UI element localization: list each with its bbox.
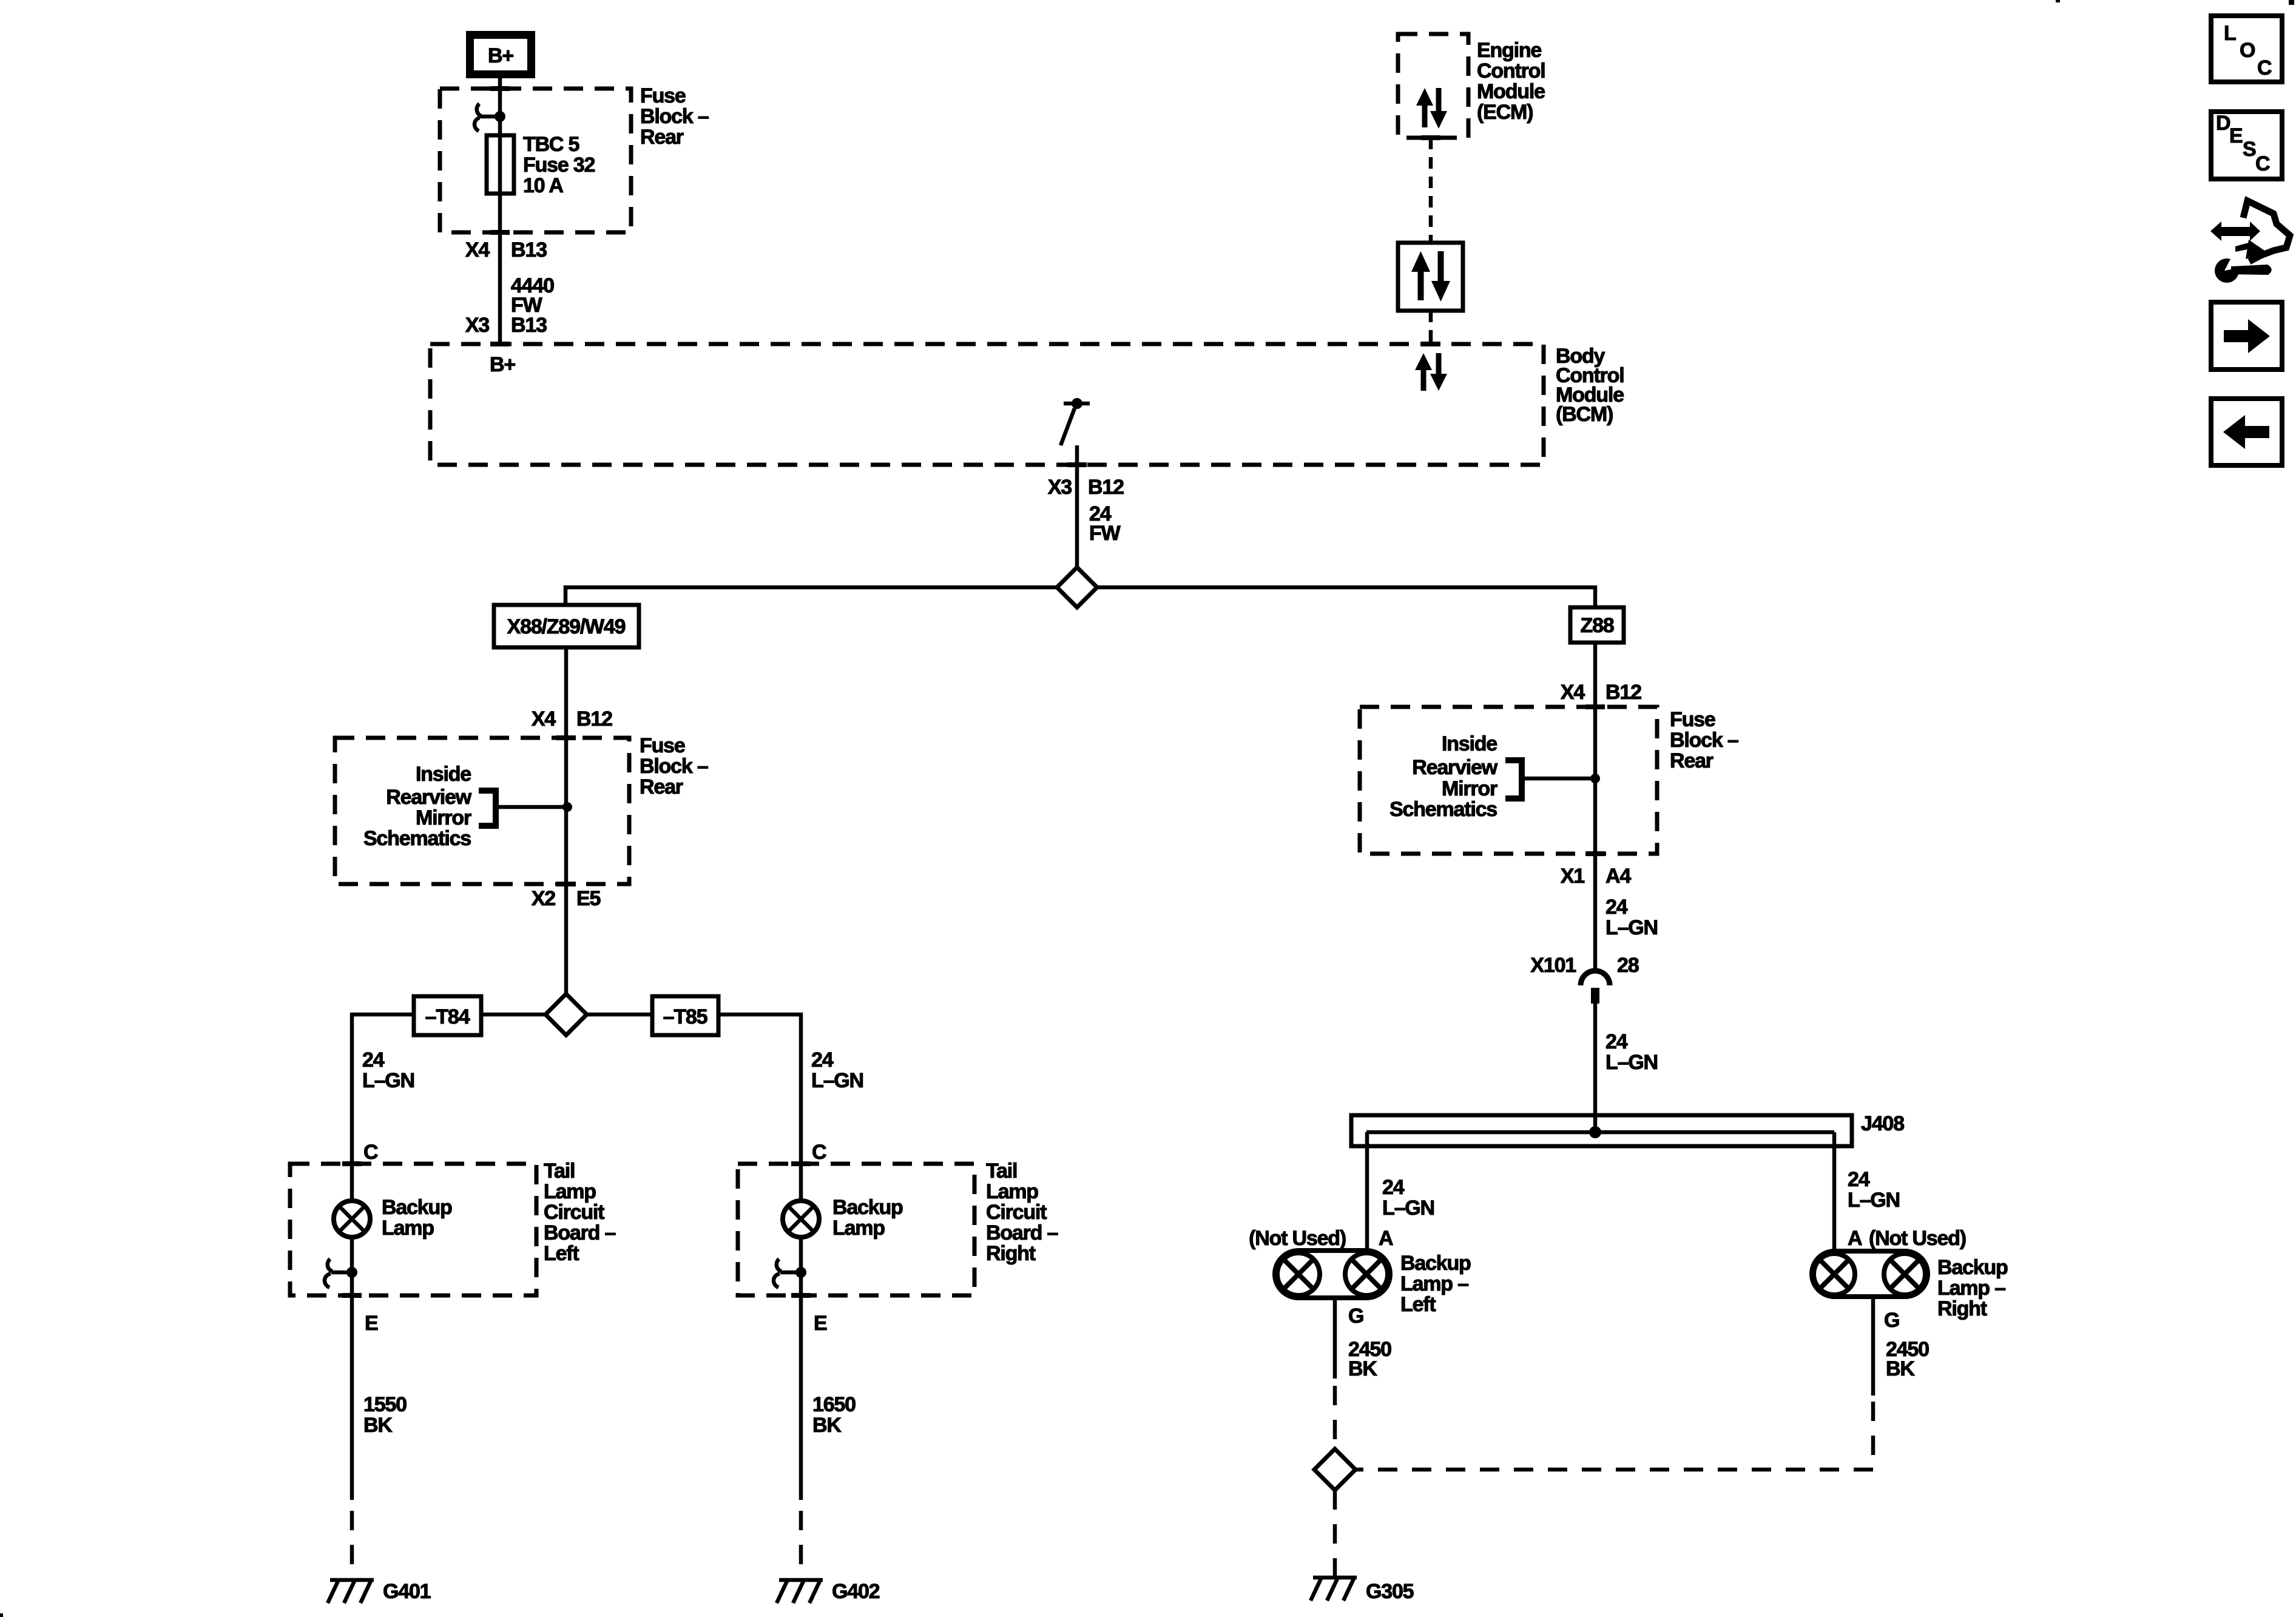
terminal clip (left board): [325, 1237, 357, 1295]
svg-text:(Not Used): (Not Used): [1869, 1227, 1966, 1250]
svg-text:E5: E5: [576, 887, 600, 910]
sidebar forward arrow button: [2211, 302, 2282, 370]
wire lamp to ground (left): [350, 1295, 354, 1500]
svg-text:O: O: [2240, 39, 2255, 62]
svg-text:S: S: [2243, 138, 2256, 161]
svg-text:Board –: Board –: [986, 1221, 1058, 1244]
svg-text:L–GN: L–GN: [811, 1069, 863, 1092]
svg-text:Left: Left: [1400, 1293, 1436, 1316]
svg-text:Block –: Block –: [640, 755, 708, 778]
dashed wire diamond to ground: [1333, 1490, 1337, 1578]
svg-text:Rear: Rear: [640, 126, 684, 149]
svg-text:24: 24: [1606, 896, 1628, 919]
svg-text:B13: B13: [511, 238, 547, 262]
backup lamp (right board): [783, 1164, 903, 1240]
BCM dashed box: [430, 344, 1544, 465]
svg-text:Mirror: Mirror: [416, 806, 471, 829]
wire Z88 down: [1593, 643, 1598, 971]
connector box Z88: [1570, 607, 1624, 643]
svg-text:Circuit: Circuit: [544, 1201, 604, 1224]
svg-text:B12: B12: [1088, 476, 1124, 499]
dashed ground bus to diamond: [1356, 1468, 1873, 1472]
svg-text:B+: B+: [488, 44, 513, 67]
svg-text:Inside: Inside: [1442, 732, 1497, 755]
B+ power terminal box: [470, 35, 532, 75]
svg-text:BK: BK: [363, 1414, 393, 1437]
svg-text:24: 24: [811, 1048, 834, 1072]
svg-text:Circuit: Circuit: [986, 1201, 1047, 1224]
svg-text:G: G: [1884, 1309, 1899, 1332]
svg-text:24: 24: [1848, 1168, 1870, 1191]
svg-text:B+: B+: [490, 353, 515, 376]
wire edge ticks: [490, 86, 510, 91]
svg-text:Fuse 32: Fuse 32: [523, 154, 595, 177]
svg-text:Inside: Inside: [416, 763, 471, 786]
svg-text:Backup: Backup: [832, 1196, 903, 1219]
svg-text:Fuse: Fuse: [640, 84, 686, 107]
svg-text:J408: J408: [1861, 1112, 1904, 1135]
svg-text:Rear: Rear: [640, 775, 683, 798]
svg-text:L–GN: L–GN: [1382, 1197, 1434, 1220]
backup lamp left assembly: [1275, 1251, 1471, 1316]
wire B+ to fuse block: [498, 78, 502, 344]
sidebar DESC button: [2211, 112, 2282, 179]
svg-text:L–GN: L–GN: [362, 1069, 414, 1092]
wire right lamp to ground net: [1871, 1297, 1876, 1396]
svg-text:X4: X4: [465, 238, 490, 262]
svg-text:X3: X3: [1048, 476, 1072, 499]
sidebar LOC button: [2211, 16, 2282, 82]
svg-text:10 A: 10 A: [523, 174, 563, 197]
svg-text:Rearview: Rearview: [386, 786, 471, 809]
svg-text:Fuse: Fuse: [1670, 708, 1715, 731]
svg-text:Backup: Backup: [1400, 1252, 1471, 1275]
wire J408 to right backup lamp: [1832, 1132, 1837, 1252]
svg-text:Z88: Z88: [1581, 614, 1614, 637]
svg-text:Lamp –: Lamp –: [1400, 1272, 1468, 1295]
svg-text:E: E: [814, 1312, 827, 1335]
splice diamond 3: [1314, 1449, 1356, 1490]
terminal clip (right board): [774, 1237, 806, 1295]
svg-text:BK: BK: [1886, 1357, 1915, 1380]
BCM serial data arrows: [1415, 353, 1447, 391]
svg-text:Right: Right: [986, 1242, 1036, 1265]
ground G401: [328, 1580, 431, 1603]
svg-text:24: 24: [1606, 1030, 1628, 1053]
svg-text:A: A: [1848, 1227, 1862, 1250]
svg-text:Lamp: Lamp: [986, 1180, 1038, 1203]
svg-text:Backup: Backup: [1937, 1256, 2008, 1279]
svg-text:Rearview: Rearview: [1412, 756, 1497, 779]
svg-text:(Not Used): (Not Used): [1249, 1227, 1346, 1250]
fuse block rear dashed box (right): [1360, 707, 1657, 854]
ground G402: [777, 1580, 880, 1603]
svg-text:L–GN: L–GN: [1606, 1051, 1658, 1074]
svg-text:(ECM): (ECM): [1477, 101, 1533, 124]
splice pack J408: [1351, 1112, 1904, 1146]
tail lamp circuit board left dashed box: [290, 1164, 536, 1295]
serial data gateway box: [1398, 243, 1463, 311]
svg-text:(BCM): (BCM): [1556, 403, 1613, 426]
svg-text:Engine: Engine: [1477, 39, 1541, 62]
page period mark: [0, 1613, 3, 1617]
wire X101 to J408: [1593, 1004, 1598, 1132]
connector -T85: [652, 996, 718, 1035]
svg-text:Lamp: Lamp: [832, 1217, 885, 1240]
svg-text:Lamp –: Lamp –: [1937, 1277, 2005, 1300]
svg-text:Rear: Rear: [1670, 749, 1714, 772]
svg-text:C: C: [2257, 56, 2272, 79]
svg-text:Board –: Board –: [544, 1221, 615, 1244]
svg-text:–T85: –T85: [663, 1005, 707, 1028]
svg-text:C: C: [363, 1141, 378, 1164]
ECM serial data arrows: [1416, 88, 1447, 129]
svg-text:L–GN: L–GN: [1606, 916, 1658, 939]
svg-text:C: C: [2255, 152, 2270, 175]
svg-text:G: G: [1348, 1305, 1363, 1328]
svg-text:D: D: [2216, 112, 2230, 135]
connector -T84: [414, 996, 481, 1035]
svg-text:B12: B12: [576, 707, 612, 731]
wire switch to splice diamond: [1075, 445, 1079, 569]
svg-text:A4: A4: [1606, 865, 1631, 888]
svg-text:L–GN: L–GN: [1848, 1189, 1900, 1212]
svg-text:Block –: Block –: [1670, 729, 1738, 752]
fuse TBC 5 Fuse 32 10 A: [487, 135, 514, 194]
svg-text:X101: X101: [1530, 954, 1576, 977]
svg-text:X2: X2: [532, 887, 555, 910]
inside rearview mirror schematics reference (left): [363, 763, 572, 850]
main horizontal wire: [566, 587, 1057, 605]
tail lamp circuit board right dashed box: [738, 1164, 974, 1295]
dashed serial data wire gateway to BCM: [1429, 311, 1433, 342]
top edge artifact 2: [2289, 0, 2294, 5]
switch inside BCM: [1061, 398, 1090, 445]
svg-text:BK: BK: [812, 1414, 842, 1437]
fuse block rear dashed box (top left): [440, 89, 631, 232]
ECM dashed box: [1398, 34, 1468, 138]
svg-text:–T84: –T84: [425, 1005, 470, 1028]
wire J408 to left backup lamp: [1365, 1132, 1369, 1252]
svg-text:Control: Control: [1477, 59, 1545, 83]
wire X88 box to diamond 2: [564, 647, 569, 994]
svg-text:BK: BK: [1348, 1357, 1377, 1380]
svg-text:G401: G401: [383, 1580, 431, 1603]
svg-text:1550: 1550: [363, 1393, 407, 1416]
svg-text:A: A: [1379, 1227, 1393, 1250]
svg-text:Fuse: Fuse: [640, 734, 685, 757]
splice diamond S1: [1057, 567, 1097, 607]
terminal clip in fuse block: [474, 104, 505, 131]
svg-text:Backup: Backup: [382, 1196, 452, 1219]
horizontal wire through T84/T85: [352, 1014, 545, 1166]
svg-text:24: 24: [362, 1048, 385, 1072]
svg-text:Lamp: Lamp: [382, 1217, 434, 1240]
sidebar hand/wrench icon: [2210, 201, 2290, 283]
svg-text:FW: FW: [1089, 522, 1121, 545]
ground G305: [1311, 1578, 1414, 1603]
svg-text:E: E: [2229, 124, 2243, 147]
svg-text:G402: G402: [832, 1580, 880, 1603]
svg-text:Schematics: Schematics: [363, 827, 471, 850]
svg-text:Left: Left: [544, 1242, 579, 1265]
svg-text:Lamp: Lamp: [544, 1180, 596, 1203]
splice diamond 2: [545, 994, 587, 1035]
svg-text:X88/Z89/W49: X88/Z89/W49: [507, 615, 626, 638]
svg-text:Mirror: Mirror: [1442, 777, 1497, 800]
backup lamp right assembly: [1812, 1251, 2008, 1320]
wire left lamp to ground: [1333, 1298, 1337, 1379]
svg-text:Tail: Tail: [544, 1160, 575, 1183]
top edge artifact 1: [2056, 0, 2060, 2]
svg-text:E: E: [365, 1312, 378, 1335]
connector box X88/Z89/W49: [494, 605, 639, 647]
svg-text:Block –: Block –: [640, 105, 709, 128]
svg-text:L: L: [2224, 22, 2236, 45]
svg-text:Module: Module: [1477, 80, 1545, 103]
svg-text:X4: X4: [532, 707, 556, 731]
svg-text:Schematics: Schematics: [1389, 798, 1497, 821]
svg-text:X3: X3: [465, 314, 489, 337]
svg-text:1650: 1650: [812, 1393, 856, 1416]
backup lamp (left board): [334, 1164, 452, 1240]
fuse block rear dashed box (left middle): [335, 738, 629, 884]
svg-text:Right: Right: [1937, 1297, 1987, 1320]
wire lamp to ground (right): [799, 1295, 803, 1500]
svg-text:C: C: [812, 1141, 826, 1164]
svg-text:24: 24: [1382, 1176, 1405, 1199]
sidebar back arrow button: [2211, 399, 2282, 465]
svg-text:28: 28: [1617, 954, 1639, 977]
svg-text:X4: X4: [1561, 681, 1585, 704]
inside rearview mirror schematics reference (right): [1389, 732, 1600, 821]
svg-text:B13: B13: [511, 314, 547, 337]
dashed serial data wire ECM to gateway: [1429, 138, 1433, 243]
svg-text:X1: X1: [1561, 865, 1584, 888]
svg-text:B12: B12: [1606, 681, 1641, 704]
svg-text:TBC 5: TBC 5: [523, 133, 579, 156]
svg-text:G305: G305: [1366, 1580, 1414, 1603]
svg-text:Tail: Tail: [986, 1160, 1017, 1183]
inline connector X101 pin 28: [1530, 954, 1638, 1004]
